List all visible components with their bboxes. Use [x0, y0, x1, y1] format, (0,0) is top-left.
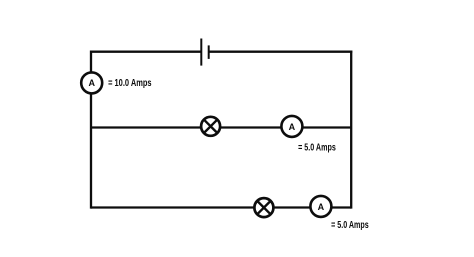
ammeter A3	[310, 196, 331, 217]
battery B1 long plate (positive)	[200, 39, 202, 66]
label A3 value = 5.0 Amps	[331, 220, 369, 231]
battery B1 short plate (negative)	[208, 45, 210, 59]
ammeter A2	[281, 116, 302, 137]
svg-text:A: A	[289, 122, 296, 132]
wire right vertical	[350, 51, 352, 209]
wire top-right (battery right lead)	[209, 51, 353, 53]
label A1 value = 10.0 Amps	[108, 78, 152, 89]
wire middle branch	[91, 126, 351, 128]
wire bottom	[91, 206, 351, 208]
svg-text:A: A	[88, 78, 95, 88]
svg-text:= 10.0 Amps: = 10.0 Amps	[108, 78, 152, 89]
wire left vertical	[90, 51, 92, 209]
lamp L2	[254, 198, 273, 217]
label A2 value = 5.0 Amps	[298, 143, 336, 154]
wire top-left (battery left lead)	[91, 51, 201, 53]
ammeter A1	[81, 72, 102, 93]
lamp L1	[201, 117, 220, 136]
svg-text:= 5.0 Amps: = 5.0 Amps	[331, 220, 369, 231]
svg-text:A: A	[318, 202, 325, 212]
svg-text:= 5.0 Amps: = 5.0 Amps	[298, 143, 336, 154]
